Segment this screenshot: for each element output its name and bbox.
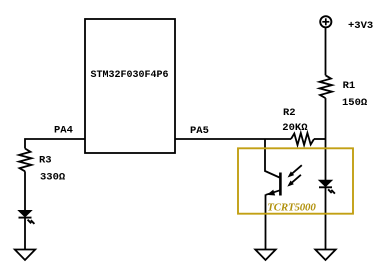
- value 330Ω: [40, 171, 66, 183]
- wire LED D1 to ground: [24, 218, 26, 250]
- sensor outline box TCRT5000: [238, 148, 353, 213]
- label R3: [39, 154, 52, 166]
- wire LED D2 to ground: [325, 187, 327, 249]
- svg-text:TCRT5000: TCRT5000: [267, 202, 316, 214]
- light arrows into phototransistor: [287, 165, 302, 186]
- label R2: [283, 107, 296, 119]
- wire R2 to node: [314, 138, 326, 140]
- svg-text:STM32F030F4P6: STM32F030F4P6: [91, 69, 169, 81]
- svg-text:R3: R3: [39, 154, 52, 166]
- ground (left): [15, 250, 35, 261]
- label +3V3: [348, 20, 373, 32]
- svg-text:330Ω: 330Ω: [40, 171, 66, 183]
- LED D1 (left, indicator): [19, 211, 35, 224]
- svg-text:20KΩ: 20KΩ: [282, 122, 308, 134]
- label STM32F030F4P6: [91, 69, 169, 81]
- ground (right, LED): [315, 250, 335, 261]
- svg-text:R2: R2: [283, 107, 296, 119]
- pin label PA4: [54, 125, 73, 137]
- wire R1 to node and node to LED D2: [325, 98, 327, 180]
- wire emitter to ground: [265, 194, 267, 249]
- wire PA5 (box to R2): [175, 138, 291, 140]
- svg-text:+3V3: +3V3: [348, 20, 373, 32]
- resistor R3: [19, 149, 32, 172]
- svg-text:PA5: PA5: [190, 125, 209, 137]
- wire PA4: [25, 139, 85, 149]
- phototransistor Q1 base bar: [279, 173, 282, 196]
- resistor R2: [291, 133, 314, 145]
- wire node to phototransistor collector: [265, 139, 280, 178]
- ground (middle, transistor): [255, 250, 275, 261]
- label TCRT5000: [267, 202, 316, 214]
- power +3V3 terminal: [320, 16, 331, 27]
- resistor R1: [320, 75, 333, 98]
- phototransistor Q1 emitter with arrow: [266, 190, 281, 196]
- label R1: [343, 80, 356, 92]
- svg-text:150Ω: 150Ω: [342, 97, 368, 109]
- value 20KΩ: [282, 122, 308, 134]
- wire +3V3 to R1: [325, 27, 327, 75]
- svg-text:R1: R1: [343, 80, 356, 92]
- value 150Ω: [342, 97, 368, 109]
- IC U1 STM32F030F4P6 box: [85, 19, 175, 153]
- svg-text:PA4: PA4: [54, 125, 73, 137]
- wire R3 to LED D1: [24, 171, 26, 210]
- pin label PA5: [190, 125, 209, 137]
- LED D2 (IR emitter inside TCRT5000): [319, 180, 335, 193]
